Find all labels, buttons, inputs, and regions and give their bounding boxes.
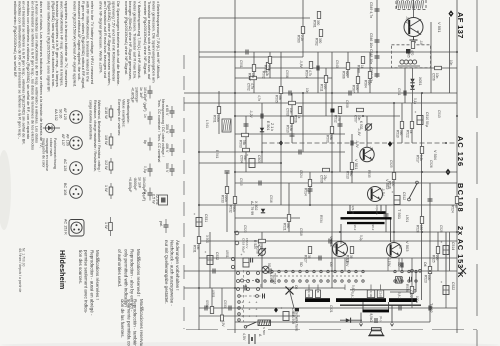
svg-text:R507: R507 <box>248 73 252 81</box>
svg-text:of authorities used.: of authorities used. <box>117 249 122 287</box>
svg-text:C516: C516 <box>269 195 273 203</box>
svg-text:C506: C506 <box>285 70 289 78</box>
svg-text:10n: 10n <box>435 73 439 79</box>
svg-text:meter (Rg≥20/150mA) without AF: meter (Rg≥20/150mA) without AF-signal ap… <box>72 1 77 87</box>
svg-text:4,5V: 4,5V <box>242 333 246 341</box>
svg-text:C505: C505 <box>257 155 261 163</box>
svg-text:Hildesheim: Hildesheim <box>58 250 67 289</box>
svg-text:Modifications reserved !: Modifications reserved ! <box>136 249 141 297</box>
svg-text:220k: 220k <box>224 195 228 202</box>
svg-text:390: 390 <box>318 38 322 44</box>
svg-text:Nr. 1 700.00: Nr. 1 700.00 <box>22 248 26 267</box>
svg-text:4,7k: 4,7k <box>337 115 341 121</box>
svg-text:R525: R525 <box>432 255 436 263</box>
svg-text:C530: C530 <box>223 300 227 308</box>
svg-text:3,3k: 3,3k <box>289 125 293 131</box>
svg-text:Exemples de valeurs:: Exemples de valeurs: <box>117 99 122 136</box>
svg-text:C518: C518 <box>299 228 303 236</box>
svg-text:-1,6V: -1,6V <box>357 128 361 136</box>
svg-text:C513: C513 <box>437 110 441 118</box>
svg-text:R567: R567 <box>352 85 356 93</box>
svg-text:C524: C524 <box>299 170 303 178</box>
svg-text:C508: C508 <box>345 100 349 108</box>
svg-text:8,5kΩ: 8,5kΩ <box>369 314 373 323</box>
svg-text:AF 139: AF 139 <box>66 134 70 146</box>
svg-text:+: + <box>390 191 394 193</box>
svg-text:R561: R561 <box>313 20 317 28</box>
svg-text:R505: R505 <box>275 95 279 103</box>
svg-text:C548 10n: C548 10n <box>369 49 373 64</box>
svg-text:500 V: 500 V <box>165 163 169 173</box>
svg-text:C525: C525 <box>389 160 393 168</box>
svg-text:R501: R501 <box>213 115 217 123</box>
svg-text:R532: R532 <box>229 205 233 213</box>
svg-text:-6V: -6V <box>333 243 337 249</box>
svg-text:R527: R527 <box>304 255 308 263</box>
svg-text:V 551: V 551 <box>437 22 442 33</box>
svg-text:+: + <box>279 307 283 309</box>
svg-text:10n: 10n <box>289 108 293 114</box>
svg-text:R522: R522 <box>406 130 410 138</box>
svg-text:C514: C514 <box>451 242 455 250</box>
svg-text:47: 47 <box>454 205 458 209</box>
svg-text:C520: C520 <box>439 225 443 233</box>
svg-text:-0,15V: -0,15V <box>345 257 349 267</box>
svg-text:-1,5V: -1,5V <box>381 188 385 196</box>
svg-text:permise seulement avec indica-: permise seulement avec indica- <box>84 250 89 314</box>
svg-text:4,7n: 4,7n <box>250 83 254 89</box>
svg-text:nometer (Rg≥20/150mA) ohne NF-: nometer (Rg≥20/150mA) ohne NF-Signal. <box>124 1 129 75</box>
svg-text:39k: 39k <box>278 95 282 101</box>
svg-text:38.2: 38.2 <box>353 225 357 231</box>
svg-text:1 W: 1 W <box>104 185 108 192</box>
svg-text:C509: C509 <box>320 175 324 183</box>
svg-text:V 503: V 503 <box>405 241 410 252</box>
svg-text:R516: R516 <box>388 181 392 189</box>
svg-text:C522: C522 <box>409 290 413 298</box>
svg-text:R535: R535 <box>367 170 371 178</box>
svg-text:·8000pF: ·8000pF <box>133 177 137 191</box>
svg-text:B: B <box>316 291 320 293</box>
svg-text:1k: 1k <box>360 65 364 69</box>
svg-text:O4: O4 <box>423 262 427 267</box>
svg-text:220: 220 <box>435 255 439 261</box>
svg-text:0,5 W: 0,5 W <box>152 194 156 204</box>
svg-text:AC 153 K: AC 153 K <box>64 219 68 235</box>
svg-text:R533: R533 <box>221 195 225 203</box>
svg-text:R536: R536 <box>405 284 409 292</box>
svg-text:sistor millivoltmètre (Rg≥20/1: sistor millivoltmètre (Rg≥20/150mA) sans… <box>46 1 51 92</box>
svg-text:TV2016: TV2016 <box>273 273 277 284</box>
svg-text:98.2: 98.2 <box>371 225 375 231</box>
svg-text:120: 120 <box>367 80 371 86</box>
svg-text:3 500: 3 500 <box>205 235 209 243</box>
svg-text:R560: R560 <box>297 35 301 43</box>
svg-text:C502: C502 <box>247 83 251 91</box>
svg-text:AA 132: AA 132 <box>54 109 58 121</box>
svg-text:T 501: T 501 <box>397 209 402 220</box>
svg-text:1k: 1k <box>409 130 413 134</box>
svg-text:Reproduction - aussi en abrégé: Reproduction - aussi en abrégé - <box>89 250 94 316</box>
svg-text:0,5μ: 0,5μ <box>143 166 147 173</box>
svg-text:nur mit Quellenangabe gestatte: nur mit Quellenangabe gestattet. <box>164 240 169 304</box>
svg-text:2,2k: 2,2k <box>300 35 304 41</box>
svg-text:AC 126: AC 126 <box>63 159 67 171</box>
svg-text:10n: 10n <box>305 88 309 94</box>
svg-text:-0,9V: -0,9V <box>355 140 359 148</box>
svg-text:R510: R510 <box>286 125 290 133</box>
svg-text:1n: 1n <box>143 114 147 118</box>
svg-text:C510 50μ: C510 50μ <box>425 112 429 127</box>
svg-text:Tens. CC nominale / Tens. CC n: Tens. CC nominale / Tens. CC nominal <box>157 99 161 162</box>
svg-text:R(G.2): R(G.2) <box>375 206 379 215</box>
svg-text:Modificaciones reservadas !: Modificaciones reservadas ! <box>139 299 144 346</box>
svg-text:R566: R566 <box>342 71 346 79</box>
svg-text:C540: C540 <box>335 60 339 68</box>
svg-text:AJ 79 99: AJ 79 99 <box>250 201 254 215</box>
svg-text:-1V: -1V <box>419 40 423 46</box>
svg-text:470: 470 <box>410 50 414 56</box>
svg-text:5,8 Z: 5,8 Z <box>350 292 354 299</box>
svg-text:150k: 150k <box>216 115 220 122</box>
svg-text:R563: R563 <box>357 65 361 73</box>
svg-text:390: 390 <box>316 20 320 26</box>
svg-text:100: 100 <box>427 275 431 281</box>
svg-text:330: 330 <box>286 223 290 229</box>
svg-text:0,1μ: 0,1μ <box>413 98 417 104</box>
svg-text:R504: R504 <box>305 70 309 78</box>
svg-text:1n 1nF: 1n 1nF <box>137 177 141 189</box>
svg-text:820: 820 <box>345 71 349 77</box>
svg-text:C504: C504 <box>240 155 244 163</box>
svg-text:3(N.2): 3(N.2) <box>351 206 355 214</box>
svg-text:+: + <box>203 251 207 253</box>
svg-text:L501: L501 <box>405 215 409 222</box>
svg-text:R565: R565 <box>407 50 411 58</box>
svg-text:L 541: L 541 <box>205 120 209 128</box>
svg-text:+: + <box>439 241 443 243</box>
svg-text:R562: R562 <box>315 38 319 46</box>
svg-text:O5: O5 <box>329 262 333 267</box>
svg-text:+: + <box>192 213 196 215</box>
svg-text:15/16 V: 15/16 V <box>245 238 249 248</box>
svg-text:-0,8V: -0,8V <box>299 60 303 68</box>
svg-text:33n: 33n <box>243 155 247 161</box>
svg-text:C165: C165 <box>379 291 383 298</box>
svg-text:220: 220 <box>323 84 327 90</box>
svg-text:C507: C507 <box>354 115 358 123</box>
svg-text:ción de las fuentes.: ción de las fuentes. <box>120 299 125 338</box>
svg-text:Änderungen vorbehalten !: Änderungen vorbehalten ! <box>175 240 180 291</box>
svg-text:0,1R: 0,1R <box>307 291 311 297</box>
svg-text:R509: R509 <box>326 135 330 143</box>
svg-text:150: 150 <box>419 225 423 231</box>
svg-text:68k: 68k <box>329 135 333 141</box>
svg-text:44 / from / depuis / a partir: 44 / from / depuis / a partir de <box>18 248 22 292</box>
svg-text:R503: R503 <box>239 140 243 148</box>
svg-text:C519 50μF: C519 50μF <box>242 238 246 253</box>
svg-text:O5: O5 <box>294 285 298 289</box>
svg-text:10±10μF (μμF): 10±10μF (μμF) <box>142 177 146 201</box>
svg-text:150: 150 <box>355 85 359 91</box>
svg-text:+: + <box>439 281 443 283</box>
svg-text:S 500: S 500 <box>262 327 266 335</box>
svg-text:R511: R511 <box>320 84 324 92</box>
svg-text:AF 125: AF 125 <box>63 108 67 120</box>
svg-text:marcación de color: marcación de color <box>41 138 45 168</box>
svg-text:+: + <box>413 111 417 113</box>
svg-text:+0,805μF: +0,805μF <box>130 87 134 104</box>
svg-text:R531: R531 <box>193 245 197 253</box>
svg-text:R521: R521 <box>283 223 287 231</box>
svg-text:R508: R508 <box>264 65 268 73</box>
svg-text:E 501: E 501 <box>266 121 270 130</box>
svg-text:C526: C526 <box>429 160 433 168</box>
svg-text:1/2 W: 1/2 W <box>104 160 108 170</box>
svg-text:solamente permitida con indica: solamente permitida con indica- <box>126 299 131 346</box>
svg-text:10n: 10n <box>357 115 361 121</box>
svg-text:10n: 10n <box>449 60 453 66</box>
svg-text:S0 26: S0 26 <box>59 109 63 118</box>
svg-text:nometer (Rg≥20/150mA) ohne NF-: nometer (Rg≥20/150mA) ohne NF-Signal. <box>143 1 148 75</box>
svg-text:R534: R534 <box>319 215 323 223</box>
svg-text:R564: R564 <box>364 80 368 88</box>
svg-text:C515: C515 <box>239 178 243 186</box>
svg-text:C556: C556 <box>432 73 436 81</box>
svg-text:5,6k: 5,6k <box>267 65 271 71</box>
svg-text:1,2k: 1,2k <box>419 155 423 161</box>
svg-text:350 V: 350 V <box>165 124 169 134</box>
svg-text:1M: 1M <box>196 245 200 250</box>
svg-text:ohne NF-Signal gemessen. Werte: ohne NF-Signal gemessen. Werte ±20%. <box>98 1 103 74</box>
svg-text:0,2μ: 0,2μ <box>359 235 363 241</box>
svg-text:8p: 8p <box>143 140 147 144</box>
svg-text:C523: C523 <box>243 225 247 233</box>
svg-text:Reproducción - también en part: Reproducción - también en parte - <box>133 299 138 346</box>
svg-text:-0,15V: -0,15V <box>387 257 391 267</box>
svg-text:C517: C517 <box>291 308 295 316</box>
svg-text:0,1R: 0,1R <box>369 291 373 297</box>
svg-text:a1: a1 <box>259 284 263 288</box>
svg-text:39: 39 <box>307 255 311 259</box>
svg-text:E 541: E 541 <box>215 150 219 159</box>
svg-text:+: + <box>239 254 243 256</box>
svg-text:18k: 18k <box>251 73 255 79</box>
svg-text:C511: C511 <box>397 88 401 96</box>
svg-text:-7V: -7V <box>369 146 373 152</box>
svg-text:C532: C532 <box>215 252 219 260</box>
svg-text:1 W: 1 W <box>104 222 108 229</box>
svg-text:5O: 5O <box>299 262 303 267</box>
svg-text:d 65 V: d 65 V <box>165 105 169 116</box>
svg-text:La 501: La 501 <box>269 273 273 283</box>
svg-text:-6V: -6V <box>398 244 402 250</box>
svg-text:pal.: pal. <box>159 221 163 227</box>
svg-text:R506: R506 <box>294 115 298 123</box>
svg-text:C501: C501 <box>239 60 243 68</box>
svg-text:U501: U501 <box>225 250 229 258</box>
svg-text:56k: 56k <box>242 140 246 146</box>
svg-text:(0~): (0~) <box>379 316 383 321</box>
svg-text:25μ: 25μ <box>323 175 327 181</box>
svg-text:V 504: V 504 <box>433 150 437 160</box>
svg-text:AF 137: AF 137 <box>61 134 65 146</box>
svg-text:C546 10n: C546 10n <box>369 33 373 48</box>
svg-text:Modifications réservées !: Modifications réservées ! <box>95 250 100 300</box>
svg-text:12: 12 <box>259 246 263 250</box>
svg-text:X051: X051 <box>418 77 422 85</box>
svg-text:560k: 560k <box>232 205 236 212</box>
svg-text:R528: R528 <box>416 225 420 233</box>
svg-text:100μ: 100μ <box>415 296 419 303</box>
svg-text:5,6Ω: 5,6Ω <box>351 285 355 292</box>
svg-text:R508: R508 <box>256 246 260 254</box>
svg-text:Z 1 k: Z 1 k <box>270 123 274 131</box>
svg-text:406 V: 406 V <box>165 143 169 153</box>
svg-text:R512: R512 <box>334 115 338 123</box>
svg-text:1k: 1k <box>297 115 301 119</box>
svg-text:BC 108: BC 108 <box>63 183 67 195</box>
svg-text:-1,2V: -1,2V <box>249 110 253 118</box>
svg-text:100: 100 <box>391 181 395 187</box>
svg-text:R514: R514 <box>304 188 308 196</box>
svg-text:1/16 W: 1/16 W <box>104 107 108 119</box>
svg-text:C522: C522 <box>451 282 455 290</box>
svg-text:Nachdruck - auch auszugsweise: Nachdruck - auch auszugsweise - <box>170 240 175 306</box>
svg-text:R513: R513 <box>346 171 350 179</box>
svg-text:C531: C531 <box>204 214 208 222</box>
svg-text:4,7n: 4,7n <box>257 95 261 101</box>
svg-text:R519: R519 <box>396 130 400 138</box>
svg-text:milivoltímetro (Rg≥20/150mA) s: milivoltímetro (Rg≥20/150mA) sin señal B… <box>13 1 18 78</box>
svg-text:C503: C503 <box>286 108 290 116</box>
svg-text:560: 560 <box>399 130 403 136</box>
svg-text:1/8 W: 1/8 W <box>104 135 108 145</box>
svg-text:V 501: V 501 <box>354 159 359 170</box>
svg-text:tion des sources.: tion des sources. <box>78 250 83 284</box>
svg-text:-0,7V: -0,7V <box>405 16 409 24</box>
svg-text:R517: R517 <box>416 155 420 163</box>
svg-text:carga máxima admisible: carga máxima admisible <box>89 100 93 140</box>
svg-text:C521: C521 <box>329 305 333 313</box>
svg-text:+0,805μF: +0,805μF <box>128 177 132 193</box>
svg-text:R523: R523 <box>424 275 428 283</box>
svg-text:R524: R524 <box>451 205 455 213</box>
svg-text:4,7k: 4,7k <box>308 70 312 76</box>
svg-text:C549 4,7n: C549 4,7n <box>369 2 373 18</box>
svg-text:C512: C512 <box>402 192 406 200</box>
svg-text:5,8 Z: 5,8 Z <box>397 292 401 299</box>
